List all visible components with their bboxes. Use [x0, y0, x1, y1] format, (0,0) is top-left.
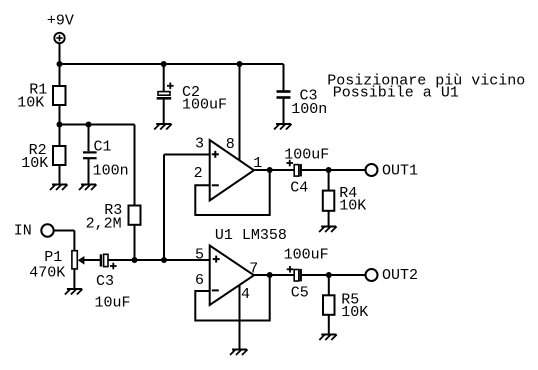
svg-text:6: 6 [195, 272, 204, 289]
svg-text:3: 3 [195, 136, 204, 153]
svg-text:OUT2: OUT2 [382, 267, 418, 284]
svg-text:Possibile a U1: Possibile a U1 [333, 85, 459, 102]
svg-text:U1 LM358: U1 LM358 [215, 227, 287, 244]
svg-text:8: 8 [226, 136, 235, 153]
svg-text:C3: C3 [96, 273, 114, 290]
svg-text:C4: C4 [290, 180, 308, 197]
svg-text:7: 7 [249, 261, 258, 278]
svg-text:C1: C1 [94, 139, 112, 156]
svg-text:IN: IN [14, 223, 32, 240]
svg-text:100uF: 100uF [284, 247, 329, 264]
svg-text:4: 4 [241, 286, 250, 303]
svg-text:OUT1: OUT1 [382, 162, 418, 179]
svg-text:10K: 10K [339, 198, 366, 215]
svg-text:5: 5 [195, 247, 204, 264]
svg-text:100n: 100n [291, 101, 327, 118]
svg-text:1: 1 [253, 155, 262, 172]
svg-text:100n: 100n [93, 163, 129, 180]
svg-text:100uF: 100uF [182, 97, 227, 114]
svg-text:100uF: 100uF [284, 147, 329, 164]
svg-text:470K: 470K [29, 265, 65, 282]
svg-text:2,2M: 2,2M [86, 215, 122, 232]
svg-text:2: 2 [194, 165, 203, 182]
svg-text:10uF: 10uF [95, 295, 131, 312]
svg-text:C5: C5 [291, 285, 309, 302]
svg-text:+9V: +9V [47, 13, 74, 30]
svg-text:P1: P1 [44, 249, 62, 266]
svg-text:10K: 10K [21, 155, 48, 172]
svg-text:10K: 10K [17, 95, 44, 112]
svg-text:10K: 10K [341, 304, 368, 321]
